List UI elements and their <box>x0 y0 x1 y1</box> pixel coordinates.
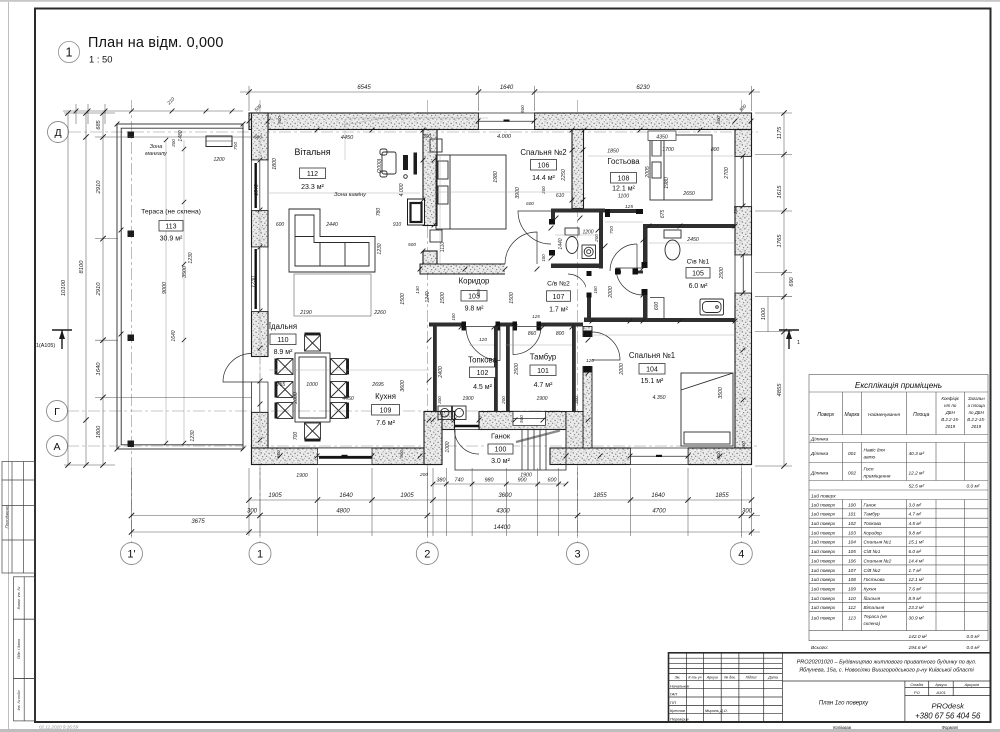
svg-text:103: 103 <box>848 530 856 535</box>
svg-text:02.11.2020 9:16:59: 02.11.2020 9:16:59 <box>39 725 79 730</box>
room label 100 Ганок <box>488 432 513 466</box>
svg-text:ДБН: ДБН <box>945 410 956 415</box>
svg-text:200: 200 <box>733 206 738 215</box>
wall tambour front left pier <box>442 412 455 430</box>
svg-text:а площа: а площа <box>968 403 986 408</box>
svg-text:2005: 2005 <box>645 166 651 179</box>
svg-text:Зм.: Зм. <box>675 676 681 680</box>
svg-text:PRO20201020 – Будівництво житл: PRO20201020 – Будівництво житлового прив… <box>797 660 977 666</box>
svg-text:15.1 м²: 15.1 м² <box>641 378 664 385</box>
svg-text:4.000: 4.000 <box>399 183 405 196</box>
svg-text:1ий поверх: 1ий поверх <box>811 615 836 621</box>
wall exterior bottom-left kitchen <box>252 448 442 465</box>
armchair + tv living room <box>380 149 407 178</box>
small niche top-left <box>206 136 232 147</box>
wall exterior right seg1 <box>735 130 752 157</box>
wall interior bedroom2/guest <box>572 130 584 209</box>
svg-text:113: 113 <box>165 224 176 231</box>
outer thin border left <box>8 2 10 729</box>
svg-text:1110: 1110 <box>440 242 446 253</box>
svg-text:600: 600 <box>276 222 285 228</box>
svg-text:500: 500 <box>399 450 404 458</box>
room label 113 Тераса (не склена) <box>141 209 201 243</box>
wall exterior top-right <box>535 113 752 130</box>
svg-text:108: 108 <box>618 176 630 183</box>
wall exterior bottom-right <box>550 448 752 465</box>
svg-text:1640: 1640 <box>339 493 353 499</box>
svg-text:675: 675 <box>660 210 666 219</box>
wall exterior left seg3 <box>252 312 269 357</box>
svg-text:980: 980 <box>485 478 494 484</box>
svg-text:10100: 10100 <box>61 279 67 296</box>
wall exterior left seg2 <box>252 211 269 248</box>
svg-text:3.0 м²: 3.0 м² <box>491 458 510 465</box>
svg-text:1700: 1700 <box>662 147 674 153</box>
axis grid dashed lines <box>67 100 758 543</box>
svg-text:РО: РО <box>914 690 920 695</box>
svg-text:1': 1' <box>127 549 135 561</box>
svg-text:Ділянка: Ділянка <box>810 471 829 477</box>
svg-text:1900: 1900 <box>462 396 473 402</box>
svg-text:685: 685 <box>96 119 102 129</box>
svg-text:6230: 6230 <box>636 85 650 91</box>
svg-text:600: 600 <box>654 302 660 311</box>
bath1 SW shaft notch <box>650 298 664 319</box>
svg-text:Д: Д <box>54 127 61 139</box>
svg-text:Взаєм. інв. №: Взаєм. інв. № <box>17 586 21 609</box>
svg-text:PROdesk: PROdesk <box>931 702 965 711</box>
bathroom1 walls <box>643 224 735 322</box>
svg-text:С/В №2: С/В №2 <box>864 568 881 573</box>
svg-text:План 1го поверху: План 1го поверху <box>819 701 869 707</box>
explication table <box>809 375 988 641</box>
wall exterior left seg1 <box>252 113 269 160</box>
wall boiler west thin <box>433 327 437 412</box>
svg-text:1ий поверх: 1ий поверх <box>811 585 836 591</box>
svg-text:Кухня: Кухня <box>864 586 877 591</box>
svg-text:690: 690 <box>789 276 795 286</box>
left strip box Підп і дата <box>14 619 36 678</box>
svg-text:Спальня №2: Спальня №2 <box>520 148 566 157</box>
svg-text:130: 130 <box>415 286 420 294</box>
svg-text:2910: 2910 <box>96 180 102 195</box>
svg-text:1640: 1640 <box>500 85 514 91</box>
svg-text:Яблунева, 15а, с. Новосілки Ви: Яблунева, 15а, с. Новосілки Вишгородсько… <box>798 668 974 674</box>
svg-text:4.5 м²: 4.5 м² <box>473 384 492 391</box>
svg-text:23.3 м²: 23.3 м² <box>908 605 925 610</box>
wall step tambour corner (hatched) <box>566 412 583 449</box>
room label 109 Кухня <box>372 392 400 427</box>
svg-text:1ий поверх: 1ий поверх <box>811 501 836 507</box>
svg-text:Тераса (не: Тераса (не <box>864 614 888 619</box>
svg-text:Копіював: Копіював <box>833 725 852 730</box>
kitchen window sill bar <box>319 456 372 458</box>
svg-text:4.7 м²: 4.7 м² <box>909 512 922 517</box>
svg-text:С/в №2: С/в №2 <box>547 281 570 288</box>
svg-text:+380 67 56 404 56: +380 67 56 404 56 <box>915 712 981 721</box>
svg-text:780: 780 <box>376 208 382 217</box>
svg-text:4350: 4350 <box>656 135 668 141</box>
svg-text:Підпис: Підпис <box>746 676 758 680</box>
svg-text:Коридор: Коридор <box>459 277 490 286</box>
svg-text:ГІП: ГІП <box>670 700 676 705</box>
svg-text:40.3 м²: 40.3 м² <box>909 451 925 457</box>
svg-text:А101: А101 <box>935 690 945 695</box>
svg-text:700: 700 <box>609 226 615 234</box>
rug below sofa <box>294 274 371 316</box>
bottom dimension rows <box>132 468 761 536</box>
svg-text:1765: 1765 <box>777 234 783 248</box>
svg-text:300: 300 <box>247 509 258 515</box>
svg-text:1640: 1640 <box>96 362 102 376</box>
terrace internal dim lines <box>166 140 184 443</box>
svg-text:910: 910 <box>393 222 402 228</box>
svg-text:380: 380 <box>437 478 446 484</box>
svg-text:мангалу: мангалу <box>145 151 168 157</box>
svg-text:1000: 1000 <box>306 382 318 388</box>
svg-text:1900: 1900 <box>520 473 532 479</box>
wall exterior right seg3 <box>735 293 752 449</box>
wall corridor south (thin) <box>429 323 583 327</box>
svg-text:Ділянка: Ділянка <box>810 451 829 457</box>
svg-text:1230: 1230 <box>190 430 196 441</box>
svg-text:9.8 м²: 9.8 м² <box>909 530 922 535</box>
svg-text:101: 101 <box>537 368 549 375</box>
svg-text:860: 860 <box>528 331 537 337</box>
svg-text:500: 500 <box>519 415 524 423</box>
svg-text:52.5 м²: 52.5 м² <box>909 484 925 490</box>
svg-text:Підп. і дата: Підп. і дата <box>17 639 21 659</box>
svg-text:Поверх: Поверх <box>817 412 834 418</box>
svg-text:1ий поверх: 1ий поверх <box>811 604 836 610</box>
section mark left <box>52 330 72 349</box>
svg-text:1240: 1240 <box>425 291 431 302</box>
svg-text:Вітальня: Вітальня <box>295 147 331 157</box>
svg-text:Погоджено: Погоджено <box>5 505 10 528</box>
svg-text:2910: 2910 <box>96 282 102 297</box>
svg-text:4800: 4800 <box>336 509 350 515</box>
svg-text:1905: 1905 <box>268 493 282 499</box>
svg-text:15.1 м²: 15.1 м² <box>909 540 925 545</box>
svg-text:Інв. № подл.: Інв. № подл. <box>17 690 21 711</box>
svg-text:1615: 1615 <box>777 185 783 199</box>
svg-text:Вітальня: Вітальня <box>864 605 885 610</box>
svg-text:1ий поверх: 1ий поверх <box>811 557 836 563</box>
porch ramp <box>516 431 560 443</box>
svg-text:1500: 1500 <box>440 292 446 304</box>
svg-text:1ий поверх: 1ий поверх <box>811 595 836 601</box>
svg-text:107: 107 <box>553 294 565 301</box>
svg-text:Г: Г <box>54 406 60 418</box>
svg-text:101: 101 <box>848 512 856 517</box>
svg-text:1200: 1200 <box>582 230 593 236</box>
svg-text:Марка: Марка <box>845 412 860 418</box>
svg-text:100: 100 <box>476 289 481 297</box>
left dimension columns <box>64 113 260 465</box>
svg-text:109: 109 <box>380 408 392 415</box>
svg-text:14.4 м²: 14.4 м² <box>532 175 555 182</box>
svg-text:склена): склена) <box>864 621 881 626</box>
title block <box>669 653 991 722</box>
svg-text:1000: 1000 <box>761 307 767 320</box>
svg-text:700: 700 <box>233 142 239 150</box>
svg-text:1900: 1900 <box>296 473 308 479</box>
wall exterior top-left <box>249 113 479 130</box>
svg-text:7.6 м²: 7.6 м² <box>376 420 395 427</box>
porch steps <box>455 430 566 471</box>
svg-text:Мироль Д.О.: Мироль Д.О. <box>705 708 728 713</box>
svg-text:1855: 1855 <box>715 493 729 499</box>
bed bedroom1 <box>681 373 733 446</box>
svg-text:500: 500 <box>254 135 262 141</box>
svg-text:приміщення: приміщення <box>864 474 891 480</box>
svg-text:107: 107 <box>848 568 856 573</box>
svg-text:1: 1 <box>66 46 73 60</box>
svg-text:0.0 м²: 0.0 м² <box>967 484 980 490</box>
extension guide lines <box>260 112 735 456</box>
svg-text:100: 100 <box>848 502 856 507</box>
svg-text:С\в №1: С\в №1 <box>687 259 710 266</box>
svg-text:110: 110 <box>277 337 288 344</box>
left strip box Погоджено <box>2 462 35 574</box>
svg-text:4450: 4450 <box>341 135 354 141</box>
boiler room appliances <box>438 406 466 420</box>
svg-text:№ док.: № док. <box>724 676 736 680</box>
svg-text:142.0 м²: 142.0 м² <box>909 634 928 640</box>
svg-text:Спальня №2: Спальня №2 <box>864 558 892 563</box>
svg-text:3: 3 <box>574 549 580 561</box>
svg-text:1ий поверх: 1ий поверх <box>811 548 836 554</box>
svg-text:Гостьова: Гостьова <box>607 157 640 166</box>
room label 107 С/в №2 <box>547 281 571 314</box>
svg-text:1ий поверх: 1ий поверх <box>811 539 836 545</box>
section mark right <box>779 330 799 349</box>
svg-text:1850: 1850 <box>607 149 619 155</box>
svg-text:1.7 м²: 1.7 м² <box>549 307 568 314</box>
axis circles bottom <box>121 543 143 565</box>
room label 106 Спальня №2 <box>520 148 566 182</box>
svg-text:100: 100 <box>495 447 507 454</box>
svg-text:1200: 1200 <box>213 157 224 163</box>
svg-text:109: 109 <box>848 586 856 591</box>
svg-text:2260: 2260 <box>373 310 386 316</box>
bathroom2 walls <box>551 209 643 269</box>
svg-text:105: 105 <box>692 271 704 278</box>
svg-text:125: 125 <box>532 314 540 319</box>
svg-text:100: 100 <box>593 286 598 294</box>
svg-text:Креслив: Креслив <box>670 708 685 713</box>
svg-text:1640: 1640 <box>651 493 665 499</box>
svg-text:1000: 1000 <box>445 441 451 452</box>
svg-text:А: А <box>53 441 60 453</box>
svg-text:Дата: Дата <box>767 676 778 680</box>
svg-text:3.0 м²: 3.0 м² <box>909 502 922 507</box>
room label 110 Їдальня <box>269 322 297 356</box>
toilet bath1 <box>664 230 681 260</box>
svg-text:4700: 4700 <box>652 509 666 515</box>
svg-text:Аркушів: Аркушів <box>964 683 979 687</box>
entrance door leaf <box>455 425 479 428</box>
svg-text:С\В №1: С\В №1 <box>864 549 881 554</box>
svg-text:610: 610 <box>556 193 565 199</box>
wall opening tick marks <box>247 119 252 124</box>
svg-text:102: 102 <box>848 521 856 526</box>
svg-text:1100: 1100 <box>618 194 629 200</box>
svg-text:Всього:: Всього: <box>811 645 829 651</box>
svg-text:105: 105 <box>848 549 856 554</box>
svg-text:1800: 1800 <box>272 158 278 170</box>
svg-text:2000: 2000 <box>608 286 614 299</box>
svg-text:Зона: Зона <box>150 144 163 150</box>
svg-text:102: 102 <box>477 370 489 377</box>
svg-text:4450: 4450 <box>342 396 354 402</box>
svg-text:1ий поверх: 1ий поверх <box>811 567 836 573</box>
svg-text:2000: 2000 <box>293 392 299 405</box>
svg-text:1500: 1500 <box>400 293 406 305</box>
svg-text:8.9 м²: 8.9 м² <box>909 596 922 601</box>
svg-text:30.9 м²: 30.9 м² <box>160 236 183 243</box>
svg-text:Ганок: Ганок <box>864 502 877 507</box>
svg-text:2440: 2440 <box>325 222 338 228</box>
svg-text:Начальник: Начальник <box>670 683 689 688</box>
svg-text:1: 1 <box>797 340 800 346</box>
bed guest room <box>648 131 712 200</box>
room label 101 Тамбур <box>530 353 557 390</box>
svg-text:Загальн: Загальн <box>968 396 985 401</box>
svg-text:В.2.2-15-: В.2.2-15- <box>967 417 986 422</box>
svg-text:194.6 м²: 194.6 м² <box>909 645 928 651</box>
svg-text:1800: 1800 <box>96 425 102 438</box>
wall interior living/bedroom2 stub <box>423 251 437 268</box>
svg-text:500: 500 <box>408 242 416 248</box>
svg-text:0.0 м²: 0.0 м² <box>967 645 980 651</box>
toilet bath2 <box>565 228 596 259</box>
page bottom edge <box>0 729 1000 732</box>
title bubble 1 <box>58 41 79 62</box>
svg-text:108: 108 <box>848 577 856 582</box>
svg-text:6545: 6545 <box>357 85 371 91</box>
svg-text:2500: 2500 <box>514 363 520 376</box>
svg-text:Ганок: Ганок <box>491 432 511 441</box>
svg-text:700: 700 <box>293 432 299 441</box>
svg-text:4.350: 4.350 <box>653 395 666 401</box>
svg-text:1230: 1230 <box>377 243 383 254</box>
svg-text:4.7 м²: 4.7 м² <box>534 382 553 389</box>
svg-text:14400: 14400 <box>494 525 511 531</box>
svg-text:600: 600 <box>548 478 557 484</box>
svg-text:23.3 м²: 23.3 м² <box>301 184 324 191</box>
svg-text:1980: 1980 <box>493 171 499 183</box>
svg-text:авто: авто <box>864 456 876 461</box>
svg-text:2650: 2650 <box>682 191 695 197</box>
window gap mask bottom <box>631 447 689 466</box>
svg-text:К-ть уч: К-ть уч <box>688 676 701 680</box>
svg-text:Формат: Формат <box>942 725 959 730</box>
svg-text:2: 2 <box>424 549 430 561</box>
svg-text:1ий поверх: 1ий поверх <box>811 520 836 526</box>
svg-text:1ий поверх: 1ий поверх <box>811 492 836 499</box>
svg-text:Топкова: Топкова <box>468 356 498 365</box>
window center marks <box>342 120 663 458</box>
svg-text:500: 500 <box>520 105 525 113</box>
room label 103 Коридор <box>459 277 490 313</box>
svg-text:1900: 1900 <box>536 396 547 402</box>
page top edge <box>0 0 1000 2</box>
svg-text:1640: 1640 <box>254 184 260 196</box>
svg-text:Їдальня: Їдальня <box>269 322 297 331</box>
svg-text:Спальня №1: Спальня №1 <box>864 540 892 545</box>
svg-text:1175: 1175 <box>777 126 783 139</box>
svg-text:1: 1 <box>257 549 263 561</box>
svg-text:1230: 1230 <box>188 252 194 263</box>
svg-text:нт по: нт по <box>944 403 957 408</box>
svg-text:2019: 2019 <box>944 424 955 429</box>
room label 108 Гостьова <box>607 157 640 193</box>
svg-text:300: 300 <box>541 186 546 194</box>
svg-text:104: 104 <box>646 367 658 374</box>
chair backs (dark) dining <box>275 333 350 442</box>
hall wall west of niche <box>587 271 591 322</box>
svg-text:2000: 2000 <box>619 363 625 376</box>
doors <box>223 211 643 454</box>
svg-text:Тераса (не склена): Тераса (не склена) <box>141 209 201 216</box>
svg-text:2250: 2250 <box>561 169 567 182</box>
terrace top dim line <box>63 104 243 124</box>
wall kitchen SE pier <box>424 412 442 465</box>
svg-text:2500: 2500 <box>719 267 725 280</box>
svg-text:3675: 3675 <box>191 519 205 525</box>
svg-text:Аркуш: Аркуш <box>934 683 947 687</box>
svg-text:106: 106 <box>848 558 856 563</box>
svg-text:100: 100 <box>541 254 546 262</box>
svg-text:6.0 м²: 6.0 м² <box>909 549 922 554</box>
svg-text:3900: 3900 <box>515 187 521 199</box>
svg-text:300: 300 <box>437 396 442 404</box>
fireplace <box>408 199 425 225</box>
svg-text:800: 800 <box>556 331 565 337</box>
svg-text:Найменування: Найменування <box>868 411 900 417</box>
svg-text:Спальня №1: Спальня №1 <box>629 351 675 360</box>
wall exterior bottom-right b <box>688 448 752 465</box>
svg-text:200: 200 <box>419 472 428 478</box>
svg-text:4.000: 4.000 <box>497 134 512 140</box>
svg-text:Їдальня: Їдальня <box>864 595 881 601</box>
left strip box Інв № подл <box>14 679 36 721</box>
svg-text:2450: 2450 <box>686 237 699 243</box>
svg-text:Кухня: Кухня <box>375 392 396 401</box>
svg-text:2700: 2700 <box>724 167 730 180</box>
wall exterior left seg5 <box>252 412 269 464</box>
wall exterior right seg2 <box>735 207 752 256</box>
svg-text:200: 200 <box>501 396 506 405</box>
svg-text:1(А105): 1(А105) <box>36 343 55 349</box>
svg-text:1980: 1980 <box>664 177 670 189</box>
svg-text:Тамбур: Тамбур <box>864 512 880 517</box>
svg-text:1440: 1440 <box>558 238 564 249</box>
svg-text:Навіс для: Навіс для <box>864 448 886 454</box>
windows <box>252 113 752 465</box>
svg-text:300: 300 <box>171 139 176 147</box>
svg-text:1855: 1855 <box>593 493 607 499</box>
svg-text:106: 106 <box>538 163 550 170</box>
svg-text:Коефіціє: Коефіціє <box>941 396 960 401</box>
svg-text:ГАП: ГАП <box>670 692 677 697</box>
svg-text:4300: 4300 <box>496 509 510 515</box>
svg-text:500: 500 <box>277 116 282 124</box>
svg-text:300: 300 <box>742 509 753 515</box>
svg-text:Ділянка: Ділянка <box>810 437 829 443</box>
svg-text:1480: 1480 <box>178 130 184 141</box>
